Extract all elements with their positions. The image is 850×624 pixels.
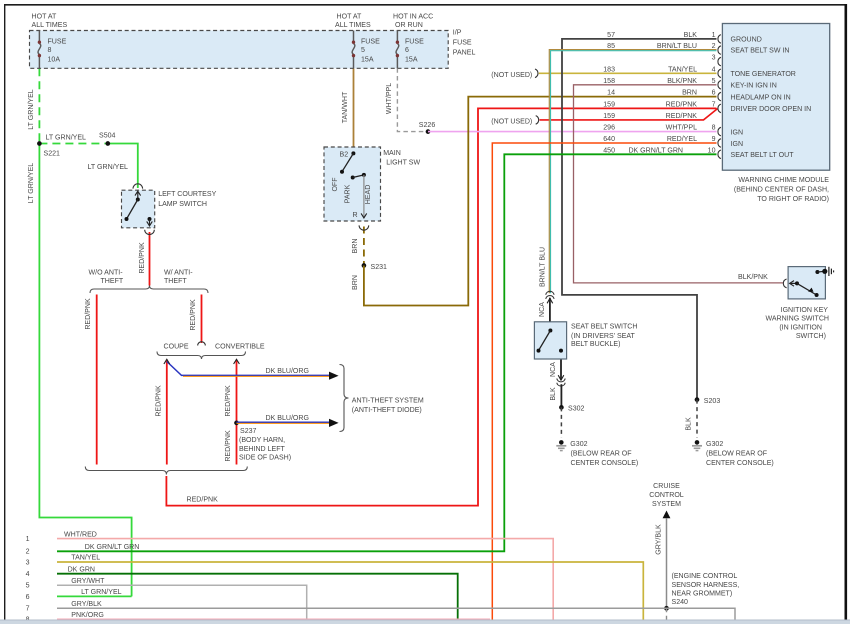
svg-text:OFF: OFF <box>332 177 339 192</box>
fuse F5 <box>352 31 355 69</box>
svg-text:RED/PNK: RED/PNK <box>187 497 219 504</box>
wire RED/PNK merged run to pin 7 <box>166 108 716 505</box>
svg-text:IGN: IGN <box>731 141 744 148</box>
node S226 <box>426 129 431 134</box>
svg-text:CENTER CONSOLE): CENTER CONSOLE) <box>571 460 639 467</box>
svg-text:14: 14 <box>607 90 615 97</box>
svg-text:FUSE: FUSE <box>453 40 472 47</box>
svg-text:159: 159 <box>603 101 615 108</box>
svg-text:OR RUN: OR RUN <box>395 22 423 29</box>
wire 5 GRY/WHT <box>57 585 307 620</box>
svg-text:BLK: BLK <box>686 417 693 431</box>
svg-text:FUSE: FUSE <box>405 38 424 45</box>
connector stub (not used) pin 4 <box>535 69 538 78</box>
svg-text:(ANTI-THEFT DIODE): (ANTI-THEFT DIODE) <box>352 407 422 414</box>
svg-text:BELT BUCKLE): BELT BUCKLE) <box>571 341 620 348</box>
brace bottom merge <box>85 467 247 475</box>
warning chime module box <box>722 24 829 171</box>
connector inline below BRN/LT BLU <box>546 291 554 299</box>
label ignition key warning switch <box>765 307 829 340</box>
svg-text:LAMP SWITCH: LAMP SWITCH <box>158 201 207 208</box>
svg-text:3: 3 <box>26 559 30 566</box>
svg-text:BLK: BLK <box>684 32 698 39</box>
svg-text:HOT IN ACC: HOT IN ACC <box>393 13 433 20</box>
svg-text:S221: S221 <box>44 151 61 158</box>
wire 7 GRY/BLK <box>57 608 735 620</box>
wire RED/YEL pin 9 down to bottom <box>492 143 716 621</box>
svg-text:6: 6 <box>26 594 30 601</box>
svg-text:W/O ANTI-: W/O ANTI- <box>89 270 124 277</box>
wire 4 DK GRN <box>57 574 458 621</box>
svg-text:85: 85 <box>607 43 615 50</box>
wire 3 TAN/YEL <box>57 562 643 621</box>
wire RED/PNK w/o anti-theft branch <box>96 295 98 465</box>
wire 1 WHT/RED <box>57 539 553 621</box>
wire LT GRN/YEL S221 down-left run to line 6 <box>39 144 131 597</box>
label warning chime module caption <box>734 177 829 203</box>
svg-text:ALL TIMES: ALL TIMES <box>32 22 68 29</box>
svg-text:RED/PNK: RED/PNK <box>666 113 698 120</box>
svg-text:FUSE: FUSE <box>48 38 67 45</box>
svg-text:1: 1 <box>26 536 30 543</box>
wire BRN/LT BLU pin 2 to connector <box>549 50 716 294</box>
svg-text:LEFT COURTESY: LEFT COURTESY <box>158 191 216 198</box>
svg-text:S203: S203 <box>704 398 721 405</box>
wire BLK connector to S302 <box>560 384 562 407</box>
wire GRY/BLK cruise control to S240 <box>666 519 668 609</box>
arrow up into connector <box>547 298 553 303</box>
arrow coupe branch <box>164 359 170 364</box>
svg-text:7: 7 <box>712 101 716 108</box>
svg-text:NCA: NCA <box>550 362 557 377</box>
svg-text:RED/PNK: RED/PNK <box>225 430 232 462</box>
main light switch box <box>324 147 381 221</box>
svg-text:DK BLU/ORG: DK BLU/ORG <box>266 415 309 422</box>
border left <box>4 4 6 624</box>
svg-text:2: 2 <box>712 43 716 50</box>
arrow down into connector <box>558 375 564 380</box>
svg-text:BRN: BRN <box>352 275 359 290</box>
svg-text:8: 8 <box>712 125 716 132</box>
svg-text:SEAT BELT LT OUT: SEAT BELT LT OUT <box>731 152 795 159</box>
svg-text:I/P: I/P <box>453 30 462 37</box>
switch contacts ignition key warning switch <box>790 267 834 297</box>
svg-text:S240: S240 <box>672 599 689 606</box>
svg-text:6: 6 <box>405 47 409 54</box>
svg-text:8: 8 <box>48 47 52 54</box>
fuse F6 <box>396 31 399 69</box>
svg-text:HEADLAMP ON IN: HEADLAMP ON IN <box>731 94 791 101</box>
svg-text:TAN/WHT: TAN/WHT <box>342 91 349 123</box>
svg-text:(IN DRIVERS' SEAT: (IN DRIVERS' SEAT <box>571 333 636 340</box>
connector arc above left courtesy lamp switch <box>133 184 143 189</box>
svg-text:BLK: BLK <box>550 387 557 401</box>
svg-text:WARNING SWITCH: WARNING SWITCH <box>765 316 829 323</box>
connector stub (not used) pin 7 <box>536 116 539 125</box>
wire LT GRN/YEL S504 to courtesy switch <box>108 144 138 189</box>
svg-text:LT GRN/YEL: LT GRN/YEL <box>28 163 35 204</box>
svg-text:RED/PNK: RED/PNK <box>225 385 232 417</box>
svg-text:S504: S504 <box>99 133 116 140</box>
wire BRN main light switch (dashed) to S231 <box>363 227 365 266</box>
node S203 <box>695 397 700 402</box>
svg-text:LIGHT SW: LIGHT SW <box>386 160 420 167</box>
label cruise control system <box>649 483 684 508</box>
svg-text:CRUISE: CRUISE <box>653 483 680 490</box>
arrow convertible branch <box>234 359 240 364</box>
svg-text:R: R <box>353 212 358 219</box>
svg-text:BRN: BRN <box>682 90 697 97</box>
ignition key warning switch box <box>788 267 825 299</box>
svg-text:SYSTEM: SYSTEM <box>652 501 681 508</box>
svg-text:4: 4 <box>26 571 30 578</box>
wire RED/PNK coupe branch <box>166 360 168 465</box>
svg-text:LT GRN/YEL: LT GRN/YEL <box>46 134 87 141</box>
brace anti-theft system <box>340 365 349 432</box>
wire DK GRN/LT GRN pin 10 to line 2 <box>57 154 717 551</box>
svg-text:7: 7 <box>26 606 30 613</box>
svg-text:DK GRN: DK GRN <box>68 566 95 573</box>
svg-text:NCA: NCA <box>539 302 546 317</box>
wire BRN S231 to pin 6 <box>364 97 717 306</box>
svg-text:TO RIGHT OF RADIO): TO RIGHT OF RADIO) <box>757 196 829 203</box>
svg-text:(NOT USED): (NOT USED) <box>491 118 532 125</box>
svg-text:NEAR GROMMET): NEAR GROMMET) <box>672 591 733 598</box>
svg-text:GROUND: GROUND <box>731 37 762 44</box>
wire NCA seat belt switch to connector <box>560 351 562 380</box>
switch contacts seat belt switch <box>537 329 564 353</box>
svg-text:PARK: PARK <box>345 184 352 203</box>
connector arc below left courtesy lamp switch <box>145 230 155 235</box>
node S302 <box>559 405 564 410</box>
svg-text:S226: S226 <box>419 122 436 129</box>
svg-text:IGN: IGN <box>731 129 744 136</box>
wire BLK S302 to G302 (dashed) <box>560 407 562 437</box>
svg-text:FUSE: FUSE <box>361 38 380 45</box>
svg-text:GRY/BLK: GRY/BLK <box>71 601 102 608</box>
wire RED/PNK pin 7 stub (not used) <box>540 109 718 120</box>
wire BLK pin 1 to S203 <box>562 39 717 400</box>
svg-text:KEY-IN IGN IN: KEY-IN IGN IN <box>731 83 777 90</box>
svg-text:COUPE: COUPE <box>164 344 189 351</box>
svg-text:10: 10 <box>708 147 716 154</box>
svg-text:WHT/PPL: WHT/PPL <box>666 125 697 132</box>
wire RED/PNK w/ anti-theft branch <box>201 295 203 344</box>
bottom wire numbers <box>26 536 30 624</box>
svg-text:LT GRN/YEL: LT GRN/YEL <box>88 164 129 171</box>
svg-text:(BELOW REAR OF: (BELOW REAR OF <box>706 451 768 458</box>
svg-text:RED/PNK: RED/PNK <box>666 101 698 108</box>
svg-text:S237: S237 <box>240 428 257 435</box>
svg-text:ALL TIMES: ALL TIMES <box>335 22 371 29</box>
svg-text:SIDE OF DASH): SIDE OF DASH) <box>239 454 291 461</box>
wire LT GRN/YEL fuse8 to S221 (dashed) <box>38 68 40 143</box>
svg-text:(ENGINE CONTROL: (ENGINE CONTROL <box>672 573 738 580</box>
svg-text:IGNITION KEY: IGNITION KEY <box>781 307 829 314</box>
switch contacts main light switch <box>340 151 367 218</box>
svg-text:S231: S231 <box>371 264 388 271</box>
svg-text:SENSOR HARNESS,: SENSOR HARNESS, <box>672 582 740 589</box>
node S240 <box>664 606 669 611</box>
connector arc at ignition key warning switch <box>783 279 786 288</box>
svg-text:2: 2 <box>26 549 30 556</box>
svg-text:THEFT: THEFT <box>164 278 187 285</box>
svg-text:(NOT USED): (NOT USED) <box>491 72 532 79</box>
svg-text:TAN/YEL: TAN/YEL <box>71 555 100 562</box>
svg-text:BLK/PNK: BLK/PNK <box>738 274 768 281</box>
connector arc below main light switch <box>359 225 369 230</box>
svg-text:RED/PNK: RED/PNK <box>139 242 146 274</box>
svg-text:GRY/BLK: GRY/BLK <box>656 524 663 555</box>
I/P fuse panel box <box>30 31 449 69</box>
svg-text:DK GRN/LT GRN: DK GRN/LT GRN <box>85 544 140 551</box>
wire 8 PNK/ORG <box>57 618 490 620</box>
svg-text:WARNING CHIME MODULE: WARNING CHIME MODULE <box>738 177 829 184</box>
svg-text:15A: 15A <box>361 56 374 63</box>
node S504 <box>105 141 110 146</box>
svg-text:RED/PNK: RED/PNK <box>156 385 163 417</box>
svg-text:LT GRN/YEL: LT GRN/YEL <box>81 589 122 596</box>
svg-text:BRN: BRN <box>352 239 359 254</box>
svg-text:BRN/LT BLU: BRN/LT BLU <box>657 43 697 50</box>
svg-text:159: 159 <box>603 113 615 120</box>
svg-text:HEAD: HEAD <box>365 185 372 205</box>
svg-text:(BODY HARN,: (BODY HARN, <box>239 437 285 444</box>
svg-text:HOT AT: HOT AT <box>337 13 362 20</box>
wire TAN/YEL pin 4 stub (not used) <box>539 72 717 74</box>
svg-text:S302: S302 <box>568 406 585 413</box>
svg-text:RED/YEL: RED/YEL <box>667 136 697 143</box>
svg-text:RED/PNK: RED/PNK <box>85 298 92 330</box>
wire labels at module pins <box>603 32 697 154</box>
svg-text:15A: 15A <box>405 56 418 63</box>
svg-text:CONVERTIBLE: CONVERTIBLE <box>215 344 265 351</box>
svg-text:158: 158 <box>603 78 615 85</box>
wire LT GRN/YEL S221 to S504 (dashed) <box>39 143 107 145</box>
node S237 <box>234 421 239 426</box>
svg-text:G302: G302 <box>706 441 723 448</box>
wire BLK S203 to G302 (dashed) <box>696 400 698 438</box>
svg-text:4: 4 <box>712 66 716 73</box>
svg-text:ANTI-THEFT SYSTEM: ANTI-THEFT SYSTEM <box>352 397 424 404</box>
svg-text:CONTROL: CONTROL <box>649 492 684 499</box>
svg-text:3: 3 <box>712 55 716 62</box>
wire BLK/PNK pin 5 to ignition key warning switch <box>574 85 784 283</box>
seat belt switch box <box>534 322 566 359</box>
wire WHT/PPL fuse6 to S226 (dashed, not used) <box>397 68 428 131</box>
svg-text:BLK/PNK: BLK/PNK <box>667 78 697 85</box>
brace w/o / w anti-theft <box>90 286 208 294</box>
svg-text:10A: 10A <box>48 56 61 63</box>
svg-text:296: 296 <box>603 125 615 132</box>
svg-text:9: 9 <box>712 136 716 143</box>
connector arc above convertible branch <box>198 342 206 346</box>
svg-text:640: 640 <box>603 136 615 143</box>
svg-text:(BEHIND CENTER OF DASH,: (BEHIND CENTER OF DASH, <box>734 186 829 193</box>
svg-text:5: 5 <box>712 78 716 85</box>
svg-text:SEAT BELT SW IN: SEAT BELT SW IN <box>731 48 790 55</box>
svg-text:5: 5 <box>361 47 365 54</box>
svg-text:TONE GENERATOR: TONE GENERATOR <box>731 71 796 78</box>
svg-text:TAN/YEL: TAN/YEL <box>668 66 697 73</box>
ground G302 left <box>556 440 566 451</box>
svg-text:SWITCH): SWITCH) <box>796 333 826 340</box>
border right <box>844 4 847 624</box>
switch contacts left courtesy lamp switch <box>125 191 153 226</box>
svg-text:5: 5 <box>26 583 30 590</box>
svg-text:SEAT BELT SWITCH: SEAT BELT SWITCH <box>571 324 637 331</box>
connector inline below seat belt switch <box>557 379 565 387</box>
svg-text:WHT/PPL: WHT/PPL <box>386 83 393 114</box>
wire NCA connector to seat belt switch <box>549 298 551 331</box>
wire 6 LT GRN/YEL <box>57 595 132 597</box>
svg-text:DRIVER DOOR OPEN IN: DRIVER DOOR OPEN IN <box>731 106 812 113</box>
svg-text:W/ ANTI-: W/ ANTI- <box>164 270 193 277</box>
wire TAN/WHT fuse5 to main light switch <box>353 68 355 153</box>
svg-text:57: 57 <box>607 32 615 39</box>
node S221 <box>37 141 42 146</box>
ground G302 right <box>692 440 702 451</box>
svg-text:LT GRN/YEL: LT GRN/YEL <box>28 89 35 130</box>
svg-text:GRY/WHT: GRY/WHT <box>71 578 105 585</box>
svg-text:DK GRN/LT GRN: DK GRN/LT GRN <box>628 147 683 154</box>
svg-text:CENTER CONSOLE): CENTER CONSOLE) <box>706 460 774 467</box>
wire DK BLU/ORG lower from S237 <box>237 419 339 427</box>
bottom blue bar <box>0 620 850 624</box>
svg-text:DK BLU/ORG: DK BLU/ORG <box>266 368 309 375</box>
module pin numbers <box>708 32 716 154</box>
svg-text:MAIN: MAIN <box>383 150 401 157</box>
svg-text:183: 183 <box>603 66 615 73</box>
svg-text:6: 6 <box>712 90 716 97</box>
svg-text:(BELOW REAR OF: (BELOW REAR OF <box>571 451 633 458</box>
wire WHT/PPL S226 to pin 8 <box>428 131 717 133</box>
wire RED/PNK convertible branch <box>236 360 238 465</box>
svg-text:HOT AT: HOT AT <box>32 13 57 20</box>
svg-text:PANEL: PANEL <box>453 50 476 57</box>
wire below S240 (dashed) <box>666 608 668 620</box>
arrow cruise control <box>663 511 671 519</box>
module pin connector arcs <box>718 35 721 159</box>
svg-text:(IN IGNITION: (IN IGNITION <box>779 324 822 331</box>
fuse F8 <box>38 31 41 69</box>
svg-text:B2: B2 <box>340 151 349 158</box>
node S231 <box>362 263 367 268</box>
svg-text:BRN/LT BLU: BRN/LT BLU <box>540 247 547 287</box>
svg-text:G302: G302 <box>570 441 587 448</box>
svg-text:BEHIND LEFT: BEHIND LEFT <box>239 446 286 453</box>
svg-text:RED/PNK: RED/PNK <box>190 299 197 331</box>
wire RED/PNK courtesy switch to brace <box>149 232 151 286</box>
svg-text:1: 1 <box>712 32 716 39</box>
brace coupe/convertible <box>157 352 246 360</box>
left courtesy lamp switch box <box>122 190 155 228</box>
svg-text:PNK/ORG: PNK/ORG <box>71 612 104 619</box>
svg-text:WHT/RED: WHT/RED <box>64 531 97 538</box>
svg-text:450: 450 <box>603 147 615 154</box>
border top <box>4 4 846 6</box>
svg-text:THEFT: THEFT <box>101 278 124 285</box>
wire DK BLU/ORG upper to anti-theft <box>167 362 339 380</box>
